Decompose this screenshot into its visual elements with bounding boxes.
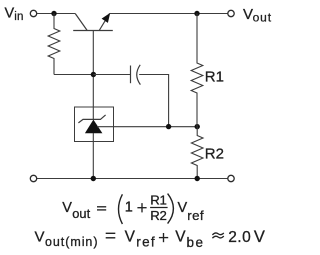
wire transistor base to zener cathode	[92, 31, 94, 120]
terminal ground right	[228, 175, 234, 181]
svg-text:out: out	[253, 11, 272, 25]
svg-text:in: in	[14, 11, 24, 23]
junction Vin / base resistor	[51, 11, 56, 16]
resistor R1	[191, 14, 203, 127]
svg-text:1: 1	[125, 200, 133, 216]
junction divider tap	[195, 124, 200, 129]
terminal Vout	[228, 10, 234, 16]
junction base node	[91, 72, 96, 77]
wire zener anode to ground rail	[92, 133, 94, 179]
zener box	[75, 107, 114, 142]
junction feedback / capacitor	[166, 124, 171, 129]
svg-text:V: V	[125, 229, 136, 246]
svg-text:R1: R1	[150, 193, 166, 208]
terminal ground left	[30, 175, 36, 181]
svg-text:V: V	[243, 6, 253, 23]
wire base node to capacitor	[93, 74, 130, 76]
svg-text:R1: R1	[205, 68, 224, 85]
svg-text:ref: ref	[187, 208, 204, 223]
svg-text:out: out	[72, 206, 90, 221]
wire capacitor to feedback node	[139, 75, 168, 127]
formula Vout = (1 + R1/R2) Vref	[62, 193, 204, 224]
resistor R2	[191, 127, 203, 179]
svg-text:R2: R2	[205, 146, 224, 163]
node Vout label	[243, 6, 272, 25]
svg-text:V: V	[178, 200, 188, 216]
svg-text:V: V	[35, 229, 45, 246]
svg-text:V: V	[62, 200, 72, 216]
capacitor C1	[131, 65, 141, 85]
svg-text:out(min): out(min)	[45, 235, 98, 249]
svg-text:V: V	[175, 229, 186, 246]
svg-text:R2: R2	[150, 208, 166, 223]
terminal Vin	[30, 10, 36, 16]
junction Vout / R1	[194, 11, 199, 16]
node Vin label	[5, 6, 24, 23]
wire zener cathode to divider tap	[97, 126, 197, 128]
svg-text:be: be	[187, 235, 205, 250]
wire emitter to Vout	[110, 13, 228, 15]
resistor (base bias, unlabeled)	[48, 14, 60, 75]
svg-text:V: V	[254, 228, 265, 246]
junction R2 / ground	[195, 176, 200, 181]
wire Vin to collector	[37, 13, 75, 15]
svg-text:2.0: 2.0	[228, 229, 251, 246]
wire ground rail	[37, 178, 228, 180]
zener diode D1	[78, 115, 105, 133]
transistor Q1	[73, 13, 113, 31]
svg-text:ref: ref	[136, 235, 156, 250]
formula Vout(min) = Vref + Vbe ~ 2.0 V	[35, 228, 265, 250]
svg-text:V: V	[5, 6, 15, 22]
junction zener / ground	[91, 176, 96, 181]
wire resistor bottom to base node	[54, 74, 93, 76]
